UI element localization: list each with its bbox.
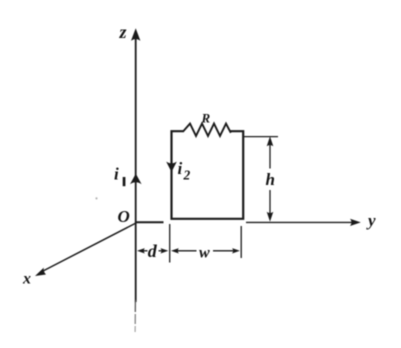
resistor R zigzag xyxy=(184,124,231,136)
w dimension arrows xyxy=(171,248,240,253)
current arrow i2 on loop left side xyxy=(166,162,177,172)
svg-text:h: h xyxy=(266,170,275,189)
svg-text:2: 2 xyxy=(183,168,191,183)
svg-text:R: R xyxy=(201,110,211,125)
w dimension extension line (right, below loop right edge) xyxy=(240,226,242,258)
x-axis xyxy=(35,223,136,276)
h dimension line with arrows xyxy=(267,136,274,221)
scan speck xyxy=(95,197,97,199)
h dimension extension line xyxy=(244,136,279,138)
current arrow i1 on z-axis xyxy=(130,174,142,185)
svg-text:i: i xyxy=(178,159,183,178)
svg-text:O: O xyxy=(118,207,130,226)
svg-text:i: i xyxy=(114,165,119,184)
d dimension extension line (left, below loop left edge) xyxy=(169,224,171,263)
svg-text:x: x xyxy=(22,271,31,288)
svg-text:z: z xyxy=(119,22,127,42)
loop (rectangular circuit) xyxy=(172,131,244,219)
svg-text:w: w xyxy=(199,245,210,262)
d dimension arrows xyxy=(137,248,168,253)
y-axis xyxy=(136,219,361,226)
svg-text:d: d xyxy=(148,241,158,261)
z-axis xyxy=(131,28,140,332)
svg-text:y: y xyxy=(366,211,376,230)
